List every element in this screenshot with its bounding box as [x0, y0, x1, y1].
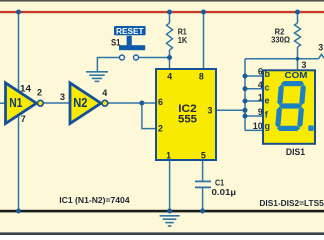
svg-text:C1: C1 — [215, 179, 224, 188]
wire: IC2 pin3 to bus — [216, 109, 245, 111]
ground main — [160, 216, 180, 226]
node: bus/b — [243, 74, 248, 79]
segment f — [277, 84, 284, 105]
ground black rail — [0, 210, 324, 213]
segment a — [281, 81, 304, 86]
wire: bus to pin e — [245, 100, 264, 102]
RESET label box — [114, 26, 146, 35]
svg-text:7: 7 — [21, 114, 26, 124]
wire: node to IC2 pin2 — [142, 103, 156, 129]
svg-text:6: 6 — [158, 97, 163, 107]
wire: S1 right contact to pin4 node — [139, 57, 170, 59]
node: S1/R1/pin4 — [167, 55, 172, 60]
segment d — [277, 126, 300, 131]
svg-text:555: 555 — [178, 113, 197, 125]
top frame border — [0, 0, 324, 2]
wire: VCC to IC2 pin8 — [203, 12, 205, 69]
pushbutton S1 plunger — [119, 36, 145, 50]
svg-text:DIS1-DIS2=LTS54: DIS1-DIS2=LTS54 — [259, 198, 324, 208]
svg-text:4: 4 — [258, 80, 263, 90]
inverter N1 — [6, 83, 37, 124]
node: N2out/pin6/pin2 — [139, 101, 144, 106]
resistor R2 zigzag — [295, 23, 301, 47]
node: bus/pin3 — [243, 108, 248, 113]
resistor R1 zigzag — [167, 23, 173, 50]
svg-text:c: c — [265, 82, 270, 92]
wire: bus to pin f — [245, 115, 264, 117]
svg-text:14: 14 — [20, 83, 31, 93]
wire: bus to pin b — [245, 75, 264, 77]
svg-text:COM: COM — [285, 70, 308, 80]
svg-text:5: 5 — [201, 150, 206, 160]
svg-text:e: e — [265, 95, 270, 105]
svg-text:3: 3 — [60, 92, 65, 102]
7-segment digit 8 — [275, 81, 307, 131]
node: gnd/IC1 — [16, 209, 21, 214]
node: VCC/R1 — [167, 10, 172, 15]
wire: segment bus vertical — [244, 59, 246, 131]
VCC red rail — [0, 11, 324, 13]
node: bus/f — [243, 114, 248, 119]
svg-text:330Ω: 330Ω — [271, 34, 290, 44]
svg-text:N2: N2 — [73, 95, 87, 110]
ground S1 — [86, 72, 108, 82]
capacitor C1 plates — [195, 181, 211, 187]
wire: IC2 pin5 to C1 — [202, 160, 204, 181]
wire: left vertical VCC-to-gnd (IC1 supply) — [18, 12, 20, 211]
wire: R1 to IC2 pin4 — [169, 50, 171, 69]
svg-text:RESET: RESET — [116, 26, 144, 36]
svg-text:3: 3 — [207, 106, 212, 116]
segment g — [279, 103, 302, 108]
wire: bus to pin g — [245, 129, 264, 131]
IC2 555 timer — [156, 69, 216, 160]
svg-text:b: b — [265, 69, 271, 79]
inverter N2 — [70, 83, 101, 124]
svg-text:9: 9 — [258, 107, 263, 117]
node: gnd/C1 — [200, 209, 205, 214]
wire: R2 to DIS1 COM pin3 — [297, 47, 299, 70]
bottom frame border — [0, 232, 324, 235]
svg-text:N1: N1 — [9, 95, 22, 110]
wire: DIS2 series resistor zigzag start at right edge — [319, 54, 324, 59]
wire: COM line to DIS2 (right edge) — [245, 58, 319, 60]
svg-text:DIS1: DIS1 — [286, 147, 306, 158]
svg-text:10: 10 — [253, 121, 263, 131]
wire: IC2 pin1 to ground rail — [169, 160, 171, 211]
wire: N1 input stub from left edge — [0, 102, 6, 104]
svg-text:8: 8 — [199, 71, 204, 81]
node: bus/c — [243, 86, 248, 91]
svg-text:IC1 (N1-N2)=7404: IC1 (N1-N2)=7404 — [59, 195, 130, 205]
svg-text:4: 4 — [102, 88, 107, 98]
node: VCC/pin8 — [201, 10, 206, 15]
svg-text:0.01µ: 0.01µ — [212, 188, 237, 197]
wire: R2 branch upper — [297, 12, 299, 23]
wire: C1 to ground rail — [202, 188, 204, 211]
segment e — [275, 107, 282, 128]
svg-text:2: 2 — [158, 124, 163, 134]
svg-text:g: g — [265, 121, 271, 131]
svg-text:3: 3 — [318, 43, 323, 53]
node: R2/COM line — [296, 57, 300, 61]
svg-text:3: 3 — [302, 60, 307, 70]
wire: bus to pin c — [245, 88, 264, 90]
N1 output bubble — [38, 100, 44, 106]
svg-text:6: 6 — [258, 66, 263, 76]
node: bus/e — [243, 99, 248, 104]
svg-text:1K: 1K — [178, 35, 188, 45]
svg-text:1: 1 — [166, 150, 171, 160]
node: gnd/pin1 — [167, 209, 172, 214]
wire: N2 bubble to IC2 pin6 — [108, 102, 156, 104]
segment c — [297, 107, 304, 128]
decimal point — [308, 125, 314, 131]
pushbutton S1 contacts — [120, 55, 139, 60]
segment b — [299, 84, 306, 105]
wire: S1 left contact to ground — [97, 58, 119, 72]
svg-text:S1: S1 — [111, 38, 121, 48]
node: VCC/R2 — [295, 10, 300, 15]
wire: N1 bubble to N2 input — [44, 102, 71, 104]
display DIS1 box — [263, 70, 315, 144]
svg-text:4: 4 — [167, 71, 172, 81]
svg-text:1: 1 — [258, 93, 263, 103]
wire: pin4/R1 branch upper — [169, 12, 171, 23]
N2 output bubble — [102, 100, 108, 106]
node: VCC/IC1 — [16, 10, 21, 15]
svg-text:2: 2 — [37, 88, 42, 98]
